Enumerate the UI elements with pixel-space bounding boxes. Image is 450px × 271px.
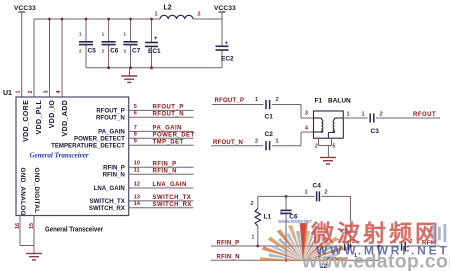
svg-text:C3: C3 (371, 128, 380, 135)
svg-text:RFOUT_N: RFOUT_N (153, 112, 184, 118)
svg-text:2: 2 (198, 11, 201, 17)
svg-text:C6: C6 (110, 48, 119, 55)
svg-text:2: 2 (251, 201, 254, 207)
svg-text:1: 1 (79, 32, 82, 37)
svg-text:5: 5 (333, 143, 336, 149)
svg-text:POWER_DET: POWER_DET (153, 133, 195, 139)
svg-text:SWITCH_RX: SWITCH_RX (89, 205, 126, 212)
svg-text:14: 14 (134, 201, 141, 207)
svg-text:2: 2 (102, 48, 105, 53)
svg-text:8: 8 (134, 132, 137, 138)
svg-text:11: 11 (134, 168, 140, 174)
svg-text:L1: L1 (264, 213, 272, 220)
svg-text:2: 2 (124, 48, 127, 53)
svg-text:EC2: EC2 (221, 56, 234, 63)
svg-text:C7: C7 (132, 48, 141, 55)
svg-text:5: 5 (134, 104, 137, 110)
svg-text:1: 1 (305, 190, 308, 196)
svg-text:3: 3 (44, 90, 50, 93)
svg-text:BALUN: BALUN (328, 98, 351, 105)
svg-text:VDD_CORE: VDD_CORE (23, 100, 30, 142)
svg-text:SWITCH_TX: SWITCH_TX (153, 195, 192, 201)
svg-text:3: 3 (305, 111, 308, 117)
svg-text:General Transceiver: General Transceiver (30, 152, 89, 160)
svg-text:SWITCH_RX: SWITCH_RX (153, 202, 192, 208)
svg-text:RFIN_N: RFIN_N (217, 255, 240, 261)
svg-text:10: 10 (134, 161, 140, 167)
svg-text:RFOUT: RFOUT (413, 112, 436, 118)
svg-text:GND_ANALOG: GND_ANALOG (19, 168, 26, 216)
svg-text:C5: C5 (88, 48, 97, 55)
svg-text:+: + (154, 36, 158, 42)
svg-text:4: 4 (56, 90, 62, 94)
svg-text:RFIN_N: RFIN_N (103, 171, 125, 178)
svg-text:1: 1 (255, 97, 258, 103)
svg-text:7: 7 (134, 125, 137, 131)
svg-text:C4: C4 (313, 183, 322, 190)
svg-text:2: 2 (276, 97, 279, 103)
svg-text:RFOUT_N: RFOUT_N (96, 114, 125, 121)
svg-text:General Transceiver: General Transceiver (45, 227, 103, 234)
svg-text:2: 2 (315, 143, 318, 149)
svg-text:VDD_ADD: VDD_ADD (62, 100, 69, 137)
svg-text:C2: C2 (265, 131, 274, 138)
svg-text:12: 12 (134, 181, 140, 187)
svg-text:GND_DIGITAL: GND_DIGITAL (33, 168, 40, 214)
svg-text:EC1: EC1 (148, 48, 161, 55)
svg-text:1: 1 (155, 11, 158, 17)
svg-text:1: 1 (276, 138, 279, 144)
svg-text:TEMPERATURE_DETECT: TEMPERATURE_DETECT (51, 142, 125, 149)
svg-text:L2: L2 (164, 5, 172, 12)
svg-text:www.edatop.com: www.edatop.com (301, 250, 450, 271)
svg-text:1: 1 (347, 112, 350, 118)
svg-text:TMP_DET: TMP_DET (153, 140, 184, 146)
svg-text:微波射频网: 微波射频网 (310, 220, 441, 246)
svg-text:U1: U1 (3, 90, 12, 97)
svg-text:VCC33: VCC33 (14, 5, 36, 12)
svg-text:LNA_GAIN: LNA_GAIN (94, 185, 125, 192)
svg-text:C1: C1 (265, 114, 274, 121)
svg-text:1: 1 (124, 32, 127, 37)
svg-text:6: 6 (134, 111, 137, 117)
svg-text:RFOUT_P: RFOUT_P (153, 105, 184, 111)
svg-text:RFIN_P: RFIN_P (153, 161, 177, 167)
svg-text:PA_GAIN: PA_GAIN (153, 126, 182, 132)
svg-text:4: 4 (305, 125, 309, 131)
svg-text:2: 2 (79, 48, 82, 53)
svg-text:2: 2 (325, 190, 328, 196)
svg-text:LNA_GAIN: LNA_GAIN (153, 182, 187, 188)
svg-text:1: 1 (102, 32, 105, 37)
svg-text:15: 15 (29, 223, 35, 229)
svg-text:2: 2 (380, 112, 383, 118)
svg-text:VDD_IO: VDD_IO (49, 100, 56, 129)
svg-text:VDD_PLL: VDD_PLL (36, 99, 43, 134)
svg-text:VCC33: VCC33 (214, 5, 236, 12)
svg-text:1: 1 (252, 235, 255, 241)
svg-text:2: 2 (255, 138, 258, 144)
svg-text:2: 2 (28, 90, 34, 93)
svg-text:1: 1 (16, 90, 22, 93)
svg-text:RFIN_P: RFIN_P (103, 164, 125, 171)
svg-text:RFIN_N: RFIN_N (153, 168, 177, 174)
svg-text:F1: F1 (315, 98, 323, 105)
svg-text:9: 9 (134, 139, 137, 145)
svg-text:16: 16 (15, 223, 21, 229)
svg-text:1: 1 (362, 112, 365, 118)
svg-text:+: + (225, 41, 229, 47)
svg-text:RFOUT_P: RFOUT_P (215, 98, 245, 104)
svg-text:13: 13 (134, 194, 140, 200)
svg-text:POWER_DETECT: POWER_DETECT (74, 135, 125, 142)
